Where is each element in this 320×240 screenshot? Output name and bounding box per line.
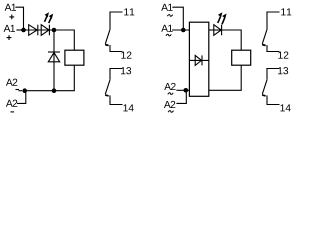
wire: terminal A1 upper, corner down to node E <box>172 7 183 28</box>
wire: node A1 through diodes to node B <box>24 29 53 31</box>
wire: terminal A1 lower to rectifier box <box>172 29 189 31</box>
contact terminal label 13 <box>121 67 131 74</box>
node A1 junction dot <box>21 28 26 33</box>
LED light arrows <box>45 12 54 23</box>
wire: coil bottom back to rectifier (right) <box>209 65 241 90</box>
contact 11-12 (relay make contact) <box>262 12 279 52</box>
LED (light emitting diode, outline) <box>41 25 49 36</box>
wire: LED to coil corner (right) <box>222 30 242 50</box>
AC mark ~ (lower A2) <box>168 111 173 113</box>
terminal label A1 (upper) <box>5 4 16 11</box>
terminal label A1 (lower, AC) <box>161 25 172 32</box>
node C junction dot (diode branch / rail) <box>52 88 57 93</box>
rectifier internal diode (outline) <box>189 55 208 65</box>
diode V1 (series diode, outline) <box>29 25 38 36</box>
contact terminal label 14 <box>123 104 133 111</box>
wire: terminal A1 lower to node A1 <box>16 29 22 31</box>
terminal label A2 (upper, AC) <box>164 83 175 90</box>
terminal label A2 (lower) <box>6 100 17 107</box>
wire: terminal A2 upper to node D <box>19 90 23 92</box>
contact 11-12 (relay make contact) <box>105 12 122 52</box>
AC mark ~ (lower A1) <box>166 34 171 36</box>
contact terminal label 11 <box>124 8 134 15</box>
terminal label A2 (upper) <box>6 79 17 86</box>
freewheel diode V2 (outline, cathode bar on top) <box>48 52 60 62</box>
LED light arrows (right) <box>218 12 227 24</box>
wire: terminal A1 upper, corner down to node A1 <box>15 7 23 28</box>
wire: rectifier to LED (right) <box>209 29 222 31</box>
contact terminal label 14 <box>280 104 290 111</box>
wire: coil bottom to bottom rail to node D <box>25 65 75 91</box>
contact terminal label 11 <box>281 8 291 15</box>
polarity mark - (upper A2) <box>16 89 20 91</box>
relay coil K2 <box>232 50 251 65</box>
wire: terminal A2 lower, corner up to node F <box>176 92 186 103</box>
terminal label A2 (lower, AC) <box>164 101 175 108</box>
wire: terminal A2 upper to rectifier box <box>176 89 189 91</box>
wire: node B down through freewheel diode to node C <box>53 30 55 90</box>
node F junction dot <box>184 88 189 93</box>
bridge rectifier box <box>189 22 208 96</box>
LED (light emitting diode right, outline) <box>214 25 222 36</box>
polarity mark + (upper A1) <box>9 15 14 20</box>
relay coil K1 <box>65 50 84 65</box>
contact 13-14 (relay make contact) <box>262 69 279 105</box>
polarity mark + (lower A1) <box>7 35 12 40</box>
terminal label A1 (upper, AC) <box>161 4 172 11</box>
terminal label A1 (lower) <box>4 25 15 32</box>
node E junction dot <box>181 28 186 33</box>
contact 13-14 (relay make contact) <box>105 69 122 105</box>
wire: node B to coil branch corner <box>54 30 74 50</box>
contact terminal label 12 <box>121 51 131 58</box>
polarity mark - (lower A2) <box>11 111 15 113</box>
node B junction dot <box>52 28 57 33</box>
AC mark ~ (upper A2) <box>168 93 173 95</box>
contact terminal label 13 <box>278 67 288 74</box>
node D junction dot (A2 tie point) <box>22 88 27 93</box>
wire: terminal A2 lower, corner up to node D <box>17 93 26 104</box>
contact terminal label 12 <box>278 51 288 58</box>
AC mark ~ (upper A1) <box>167 15 172 17</box>
